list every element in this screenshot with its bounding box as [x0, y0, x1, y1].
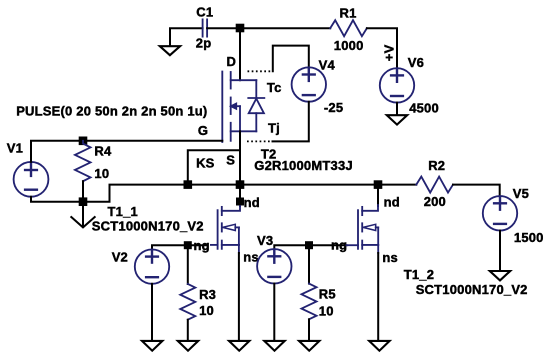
svg-text:1000: 1000 — [334, 38, 364, 53]
wire V5 to ground — [499, 231, 501, 272]
wire bus to R2 — [378, 184, 416, 186]
node S on bus — [236, 180, 245, 189]
resistor R1 — [330, 20, 367, 36]
voltage source V6 — [380, 68, 414, 102]
voltage source V1 — [14, 162, 49, 197]
ground (under R3) — [178, 341, 198, 351]
svg-text:nd: nd — [244, 195, 260, 210]
voltage source V5 — [483, 196, 517, 230]
wire Tc to V4 plus — [273, 46, 309, 72]
svg-text:4500: 4500 — [409, 100, 439, 115]
ground (under T1_1 source) — [229, 341, 249, 351]
svg-text:R5: R5 — [319, 287, 336, 302]
wire R4 bottom to node — [82, 181, 84, 202]
svg-text:G2R1000MT33J: G2R1000MT33J — [254, 158, 353, 173]
svg-text:V4: V4 — [319, 57, 336, 72]
svg-text:D: D — [227, 54, 237, 69]
wire node to bus riser — [83, 185, 188, 202]
node nd — [236, 198, 244, 206]
wire ng to R3 — [187, 245, 189, 284]
svg-text:10: 10 — [319, 304, 334, 319]
svg-text:PULSE(0 20 50n 2n 2n 50n 1u): PULSE(0 20 50n 2n 2n 50n 1u) — [16, 104, 207, 119]
node gate/R4 top — [79, 137, 88, 146]
transistor T1_2 — [347, 205, 379, 253]
label ng (right) — [330, 238, 348, 253]
svg-text:R4: R4 — [94, 144, 112, 159]
svg-text:Tj: Tj — [268, 121, 280, 136]
ground (under V5) — [490, 271, 510, 280]
svg-text:V6: V6 — [408, 55, 424, 70]
ground (under T1_2 source) — [369, 341, 389, 351]
svg-text:10: 10 — [199, 303, 214, 318]
label ng (left) — [193, 238, 211, 253]
wire V1 minus to node — [31, 197, 83, 202]
svg-text:ns: ns — [243, 250, 259, 265]
svg-text:+V: +V — [382, 44, 397, 61]
wire ng2 to T1_2 gate — [309, 244, 347, 246]
svg-text:R2: R2 — [428, 158, 445, 173]
transistor T1_1 — [206, 206, 240, 253]
wire bus middle — [188, 184, 378, 186]
wire ng to T1_1 gate — [188, 244, 206, 246]
svg-text:C1: C1 — [196, 4, 213, 19]
wire drain D from top node — [239, 28, 241, 80]
svg-text:200: 200 — [424, 194, 446, 209]
svg-text:G: G — [198, 123, 208, 138]
transistor T2 (SiC MOSFET with body diode) — [222, 72, 264, 143]
svg-text:V1: V1 — [7, 140, 23, 155]
resistor R4 — [75, 141, 91, 181]
wire node nd2 drop to T1_2 drain — [377, 185, 379, 206]
node ng (left) — [184, 241, 192, 249]
ground (under V3) — [264, 341, 284, 351]
svg-text:R1: R1 — [340, 5, 357, 20]
ground (under V6) — [387, 115, 407, 124]
capacitor C1 — [203, 19, 208, 36]
ground arrow (under V1/R4 node) — [71, 202, 94, 228]
voltage source V2 — [135, 249, 169, 283]
wire R1 to V6 — [367, 28, 397, 68]
svg-text:R3: R3 — [199, 287, 216, 302]
svg-text:2p: 2p — [196, 36, 212, 51]
voltage source V4 — [292, 67, 326, 101]
resistor R3 — [180, 284, 195, 320]
svg-text:SCT1000N170_V2: SCT1000N170_V2 — [416, 282, 528, 297]
thermal pin Tj dotted wire — [247, 140, 273, 142]
wire top bus C1 to R1 — [207, 27, 330, 29]
svg-text:SCT1000N170_V2: SCT1000N170_V2 — [92, 219, 204, 234]
wire ng2 to R5 — [308, 245, 310, 283]
wire source S of T2 down to bus — [239, 131, 241, 184]
svg-text:V5: V5 — [513, 186, 529, 201]
svg-text:V3: V3 — [257, 233, 273, 248]
resistor R5 — [302, 284, 317, 320]
svg-text:T1_1: T1_1 — [108, 204, 138, 219]
wire V2 to ground — [151, 284, 153, 341]
svg-text:10: 10 — [94, 166, 109, 181]
node KS on bus — [184, 180, 193, 189]
wire V3 to ground — [273, 284, 275, 342]
wire R5 to ground — [308, 319, 310, 341]
node top (C1/R1/D junction) — [236, 24, 245, 33]
svg-text:KS: KS — [196, 156, 215, 171]
wire R3 to ground — [187, 320, 189, 342]
svg-text:Tc: Tc — [267, 80, 282, 95]
wire V4 minus to Tj — [273, 102, 309, 142]
wire V2 plus to node ng — [152, 245, 188, 249]
svg-text:nd: nd — [384, 194, 400, 209]
wire V6 to ground — [396, 103, 398, 116]
voltage source V3 — [257, 249, 291, 283]
wire V3 plus to node ng2 — [274, 245, 309, 249]
resistor R2 — [416, 177, 453, 193]
wire T1_1 source to ground — [238, 253, 240, 341]
node ng (right) — [305, 241, 313, 249]
ground (under C1 left) — [160, 46, 180, 55]
wire V1 plus to gate bus — [31, 141, 222, 162]
svg-text:1500: 1500 — [514, 230, 544, 245]
wire C1 left to ground — [170, 28, 203, 46]
svg-text:S: S — [226, 153, 235, 168]
wire KS kelvin source — [188, 150, 240, 184]
svg-text:-25: -25 — [324, 100, 343, 115]
ground (under R5) — [299, 341, 319, 351]
svg-text:T1_2: T1_2 — [404, 267, 434, 282]
thermal pin Tc dotted wire — [248, 70, 273, 72]
wire node nd drop to T1_1 drain — [239, 185, 241, 206]
node bus/T1_2 drain — [374, 180, 383, 189]
svg-text:V2: V2 — [112, 249, 128, 264]
ground (under V2) — [142, 341, 162, 351]
wire T1_2 source to ground — [377, 253, 379, 341]
svg-text:ns: ns — [382, 250, 398, 265]
node V1/R4 bottom — [79, 197, 88, 206]
wire R2 to V5 — [453, 185, 500, 197]
